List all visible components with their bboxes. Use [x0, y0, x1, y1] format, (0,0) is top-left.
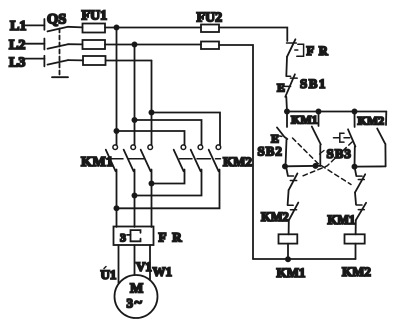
wire SB2 drop [286, 112, 288, 128]
junction dot phase1 lower [114, 206, 118, 210]
svg-text:L3: L3 [9, 56, 25, 71]
button SB3 actuator stub [334, 137, 340, 139]
wire phase1 below contact [116, 170, 118, 228]
junction dot phase3 crossover [149, 110, 153, 114]
wire row2 fuse to FU2 [105, 44, 201, 46]
switch QS linkage dashed [59, 29, 61, 76]
coil KM1 [279, 234, 298, 243]
relay FR heater symbol [127, 230, 141, 241]
label U1 accent [104, 267, 106, 269]
junction dot bottom left [286, 257, 290, 261]
svg-text:KM2: KM2 [261, 210, 289, 224]
label KM1 aux [291, 113, 318, 127]
motor 3~ [127, 296, 143, 311]
relay FR heater count [120, 231, 126, 245]
contact SB3 NC tick [290, 180, 296, 182]
label U1 [101, 267, 117, 282]
svg-text:KM1: KM1 [81, 155, 114, 170]
contact KM1 pole2 blade [124, 150, 134, 172]
button SB3 actuator bracket [340, 133, 344, 142]
wire FR to SB1 [285, 57, 288, 76]
contact KM1 pole1 terminal [113, 145, 118, 150]
switch QS label [47, 12, 66, 28]
wire SB1 to bus [285, 97, 288, 112]
node L1 terminal tick [43, 19, 45, 30]
node L2 terminal tick [43, 39, 45, 50]
junction dot phase2 crossover [132, 118, 136, 122]
relay FR box label [159, 230, 184, 245]
junction dot row1 x116 [114, 25, 118, 29]
label E SB1 [277, 81, 285, 95]
wire right join [355, 165, 386, 167]
linkage SB3 dashed [303, 142, 353, 176]
wire node to SB2-NC [355, 167, 357, 176]
contact KM2 interlock blade [289, 203, 299, 221]
junction dot phase1 crossover [114, 129, 118, 133]
svg-text:E: E [277, 81, 285, 95]
label W1 [153, 264, 173, 279]
contact KM2 interlock tick [290, 209, 296, 211]
switch QS handle bar [52, 76, 68, 78]
wire phase3 vertical [151, 61, 153, 146]
svg-text:KM2: KM2 [358, 114, 385, 128]
junction dot right node [352, 165, 356, 169]
label KM2 coil [342, 264, 371, 279]
contact KM1 interlock hook [356, 204, 362, 206]
node L3 [9, 56, 25, 71]
svg-text:L1: L1 [10, 19, 26, 34]
wire phase2 vertical [134, 45, 136, 146]
label KM1 coil [277, 265, 306, 280]
fuse FU2 element1 [201, 25, 219, 33]
label SB1 [300, 76, 327, 91]
junction dot left node [283, 164, 287, 168]
svg-text:KM1: KM1 [328, 213, 356, 227]
wire L1 lead [25, 24, 44, 26]
linkage KM2 contacts dashed [180, 158, 221, 160]
button SB3 actuator link [344, 137, 350, 139]
svg-text:KM2: KM2 [223, 154, 252, 169]
svg-text:3: 3 [127, 296, 134, 311]
contact SB3 NC hook [288, 175, 294, 177]
label KM2 interlock [261, 210, 289, 224]
contact FR NC bracket [295, 44, 304, 56]
node L3 terminal tick [43, 56, 45, 67]
label SB2 [258, 144, 283, 159]
wire phase1 to KM2 contact1 [117, 131, 185, 145]
contact KM1 aux tail tick [320, 151, 325, 155]
contact KM1 pole3 blade [141, 150, 151, 172]
fuse FU1 label [82, 9, 108, 24]
contact SB3 NC blade [289, 173, 298, 190]
wire KM2 contact2 to phase2 [135, 170, 202, 196]
motor M letter [130, 282, 143, 297]
wire to KM2 interlock [288, 190, 289, 205]
wire row3 fuse to corner [106, 60, 152, 62]
label KM2 aux [358, 114, 385, 128]
switch QS blade phase3 [48, 60, 69, 65]
button SB2 blade [277, 128, 287, 140]
contact FR NC blade [287, 39, 295, 57]
wire to KM1 coil [288, 220, 290, 234]
node L1 [10, 19, 26, 34]
contact SB2 NC blade [355, 174, 365, 192]
fuse FU1 element1 [83, 24, 106, 33]
switch QS blade phase2 [48, 44, 69, 49]
svg-text:FU1: FU1 [82, 9, 108, 24]
fuse FU2 element2 [201, 42, 219, 50]
wire KM2 aux to node [384, 144, 386, 166]
wire left join [285, 165, 320, 168]
button SB3 blade [348, 129, 355, 146]
contact KM2 aux blade [377, 129, 385, 144]
button SB1 blade [285, 74, 295, 97]
wire SB3 drop [354, 112, 356, 128]
junction dot phase2 lower [132, 193, 136, 197]
wire KM2 aux drop [385, 112, 387, 126]
contact KM1 interlock blade [356, 203, 366, 220]
wire KM2 coil to bus [355, 244, 357, 259]
wire SB3 to node [354, 147, 356, 167]
wire phase2 below contact [134, 170, 136, 228]
contact KM2 pole3 blade [209, 150, 219, 172]
wire to KM2 coil [355, 220, 357, 234]
svg-text:M: M [130, 282, 143, 297]
linkage KM1 contacts dashed [106, 158, 145, 160]
junction dot bus mid [316, 109, 320, 113]
svg-text:QS: QS [47, 12, 66, 28]
contact KM1 pole3 terminal [148, 145, 153, 150]
junction dot bus left [285, 109, 289, 113]
motor M circle [115, 275, 158, 318]
contact KM1 pole1 blade [106, 150, 116, 172]
wire L3 lead [24, 58, 44, 60]
svg-text:F R: F R [307, 44, 329, 58]
wire KM1 aux drop [318, 112, 320, 127]
label KM1 main [81, 155, 114, 170]
contact KM2 pole1 terminal [181, 145, 186, 150]
svg-text:3: 3 [120, 231, 126, 245]
contact KM2 pole2 blade [191, 150, 201, 172]
switch QS blade phase1 [48, 27, 69, 32]
svg-text:SB2: SB2 [258, 144, 283, 159]
contact KM1 pole2 terminal [131, 145, 136, 150]
junction dot row2 x134 [132, 42, 136, 46]
node L2 [9, 38, 25, 53]
svg-text:F R: F R [159, 230, 184, 245]
fuse FU2 label [197, 11, 223, 26]
contact FR NC hook [287, 42, 297, 44]
junction dot bus right [352, 109, 356, 113]
wire row2 blade to fuse [68, 43, 83, 45]
svg-text:V1: V1 [136, 259, 152, 274]
fuse FU1 element3 [83, 56, 106, 65]
contact KM2 pole1 blade [174, 150, 184, 172]
wire phase2 to KM2 contact2 [135, 120, 202, 145]
label KM1 interlock [328, 213, 356, 227]
wire row1 fuse to FU2 [105, 27, 201, 29]
wire motor lead V [134, 245, 136, 275]
wire motor lead W [149, 245, 151, 280]
label E SB2 [271, 132, 279, 146]
wire KM2 contact1 to phase3 [152, 170, 185, 184]
contact KM2 interlock hook [288, 204, 294, 206]
wire return FU2-2 down [219, 45, 253, 259]
junction dot KM1 aux node [313, 164, 317, 168]
wire control bus [287, 111, 386, 113]
wire bottom bus [253, 258, 356, 260]
contact SB2 NC tick [358, 179, 364, 181]
wire L2 lead [24, 43, 44, 45]
svg-text:U1: U1 [101, 267, 117, 282]
contact KM2 pole3 terminal [216, 145, 221, 150]
wire FU2-1 to FR corner [219, 28, 287, 42]
svg-text:~: ~ [135, 296, 143, 311]
contact SB2 NC hook [356, 175, 362, 177]
button SB1 tick [290, 77, 297, 79]
label FR control [307, 44, 329, 58]
svg-text:L2: L2 [9, 38, 25, 53]
label KM2 main [223, 154, 252, 169]
wire KM1 aux to node [319, 145, 321, 166]
linkage SB2 dashed [293, 138, 352, 185]
wire to KM1 interlock [355, 192, 356, 204]
wire node to SB3-NC [286, 166, 288, 175]
label V1 [136, 259, 152, 274]
svg-text:KM1: KM1 [291, 113, 318, 127]
wire phase3 to KM2 contact3 [152, 113, 221, 146]
relay FR box [114, 227, 154, 246]
svg-text:SB1: SB1 [300, 76, 327, 91]
svg-text:FU2: FU2 [197, 11, 223, 26]
contact KM1 aux blade [312, 127, 321, 145]
button SB1 E-link [284, 85, 291, 87]
wire motor lead U [118, 245, 120, 283]
contact KM1 interlock tick [358, 209, 364, 211]
svg-text:W1: W1 [153, 264, 173, 279]
wire SB2 to node [286, 140, 287, 167]
label SB3 [327, 146, 352, 161]
coil KM2 [345, 234, 365, 243]
wire row1 blade to fuse [68, 26, 83, 29]
contact KM2 pole2 terminal [198, 145, 203, 150]
wire KM1 coil to bus [287, 244, 289, 259]
wire KM2 contact3 to phase1 [117, 170, 220, 209]
button SB1 hook [286, 75, 290, 77]
svg-text:KM2: KM2 [342, 264, 371, 279]
wire phase1 vertical [116, 28, 118, 146]
fuse FU1 element2 [83, 40, 106, 49]
button SB2 E-link [278, 135, 282, 138]
svg-text:KM1: KM1 [277, 265, 306, 280]
junction dot phase3 lower [149, 181, 153, 185]
wire phase3 below contact [151, 170, 153, 228]
wire row3 blade to fuse [68, 59, 83, 61]
